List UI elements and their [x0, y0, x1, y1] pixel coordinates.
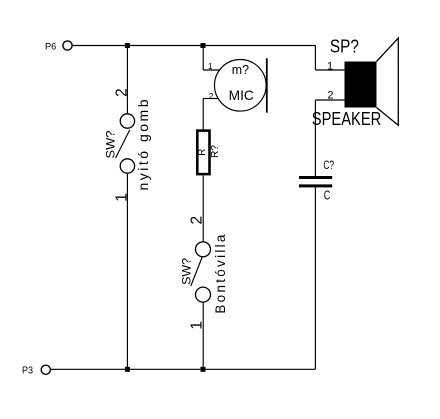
resistor R? — [197, 131, 221, 175]
svg-text:2: 2 — [114, 88, 131, 97]
svg-text:2: 2 — [209, 91, 214, 101]
wire mic pin2 — [203, 98, 218, 100]
svg-text:2: 2 — [327, 90, 333, 102]
node junction bottom left — [125, 367, 130, 372]
svg-text:nyitó gomb: nyitó gomb — [135, 99, 151, 190]
switch SW? nyito gomb — [105, 99, 151, 190]
wire mid branch bottom — [202, 302, 204, 369]
svg-text:C?: C? — [323, 160, 334, 172]
wire right branch bottom — [314, 187, 316, 369]
microphone m? MIC — [215, 58, 267, 112]
wire left branch upper — [126, 46, 128, 114]
svg-text:R?: R? — [209, 145, 221, 158]
svg-text:C: C — [324, 189, 331, 203]
svg-text:1: 1 — [114, 193, 131, 202]
svg-text:P6: P6 — [45, 41, 56, 52]
terminal P6 — [45, 41, 72, 53]
svg-text:R: R — [197, 149, 208, 156]
wire mid branch between resistor and switch2 — [202, 175, 204, 241]
node junction bottom mid — [201, 367, 206, 372]
terminal P3 — [22, 365, 50, 376]
svg-text:SW?: SW? — [105, 131, 117, 159]
svg-text:1: 1 — [327, 60, 333, 72]
svg-text:m?: m? — [232, 62, 249, 77]
svg-text:SP?: SP? — [330, 36, 359, 57]
wire mid branch top — [202, 46, 204, 71]
wire speaker pin2 — [315, 99, 344, 101]
wire top rail — [72, 45, 315, 47]
wire left branch lower — [126, 173, 128, 369]
node junction top mid — [201, 43, 206, 48]
svg-text:2: 2 — [188, 216, 205, 225]
speaker SP? — [312, 36, 399, 130]
capacitor C? — [299, 160, 334, 202]
node junction top left — [125, 43, 130, 48]
svg-text:P3: P3 — [22, 365, 33, 376]
wire right branch mid — [314, 100, 316, 176]
svg-text:SPEAKER: SPEAKER — [312, 108, 382, 129]
switch SW? Bontovilla — [181, 234, 228, 313]
svg-text:Bontóvilla: Bontóvilla — [213, 234, 228, 313]
svg-text:MIC: MIC — [229, 87, 254, 103]
wire speaker pin1 — [315, 69, 344, 71]
wire mid branch between mic and resistor — [202, 99, 204, 130]
wire bottom rail — [51, 368, 316, 370]
svg-text:SW?: SW? — [181, 258, 193, 285]
svg-text:1: 1 — [208, 61, 213, 71]
wire right branch top corner — [314, 46, 316, 71]
wire mic pin1 — [203, 69, 219, 71]
